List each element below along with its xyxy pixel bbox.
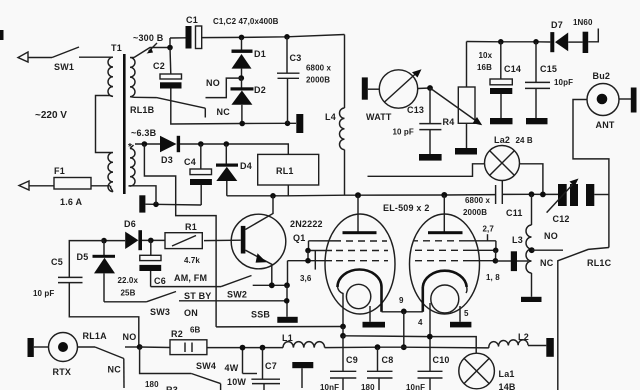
svg-text:180: 180 bbox=[145, 380, 159, 389]
capacitor C2 bbox=[169, 48, 172, 75]
svg-text:D6: D6 bbox=[124, 219, 136, 229]
wire heater feed down bbox=[144, 144, 216, 327]
inductor L1 bbox=[283, 342, 325, 348]
node chassis bbox=[153, 202, 159, 208]
wire bbox=[28, 57, 52, 59]
tube V2 grid g3 bbox=[415, 260, 495, 262]
svg-text:10 pF: 10 pF bbox=[393, 128, 414, 137]
svg-text:C5: C5 bbox=[51, 257, 63, 267]
wire La2 right bbox=[520, 164, 543, 195]
svg-text:NC: NC bbox=[217, 107, 231, 117]
switch SW3 bbox=[104, 301, 146, 303]
svg-text:Bu2: Bu2 bbox=[593, 71, 611, 81]
tube V2 grid g2 bbox=[415, 249, 496, 251]
svg-text:10nF: 10nF bbox=[320, 383, 339, 390]
diode D2 bbox=[241, 78, 243, 87]
transistor Q1 circle bbox=[231, 214, 286, 269]
wire bracket down bbox=[403, 311, 405, 347]
switch SW1 bbox=[52, 47, 79, 58]
capacitor C6 bbox=[150, 240, 152, 255]
svg-text:10W: 10W bbox=[227, 377, 246, 387]
svg-text:D3: D3 bbox=[161, 155, 173, 165]
svg-text:L4: L4 bbox=[325, 112, 336, 122]
tube V1 grid g3 bbox=[288, 260, 389, 262]
svg-text:25B: 25B bbox=[121, 289, 136, 298]
ground C15 bbox=[526, 118, 548, 124]
wire cathode bracket bbox=[382, 311, 423, 313]
svg-text:C7: C7 bbox=[265, 361, 277, 371]
capacitor C10 bbox=[418, 370, 443, 372]
svg-text:C13: C13 bbox=[407, 105, 424, 115]
svg-text:6B: 6B bbox=[190, 326, 201, 335]
svg-text:SW4: SW4 bbox=[196, 361, 216, 371]
relay coil RL1 bbox=[258, 154, 319, 185]
wire L3 tap NO bbox=[532, 249, 563, 251]
svg-text:RL1C: RL1C bbox=[587, 258, 612, 268]
svg-text:L1: L1 bbox=[282, 333, 293, 343]
svg-text:AM, FM: AM, FM bbox=[174, 273, 207, 283]
svg-text:R1: R1 bbox=[185, 222, 197, 232]
mains connector arrow upper bbox=[18, 52, 28, 62]
svg-text:R3: R3 bbox=[166, 385, 178, 390]
wire 300V top to rail bbox=[134, 38, 170, 58]
wire bus right segment bbox=[502, 193, 558, 195]
svg-text:1.6 A: 1.6 A bbox=[60, 197, 82, 207]
wire V1 grid tie bbox=[308, 241, 310, 251]
svg-text:10nF: 10nF bbox=[406, 383, 425, 390]
wire V2 grid tie bbox=[495, 241, 497, 251]
tube V1 envelope bbox=[325, 214, 395, 314]
ground meter cap bbox=[419, 154, 442, 161]
transformer T1 core bbox=[123, 54, 126, 194]
svg-text:10x: 10x bbox=[479, 51, 493, 60]
tube V2 grid g1 bbox=[413, 240, 496, 242]
node D5 top bbox=[101, 238, 107, 244]
svg-text:C6: C6 bbox=[154, 276, 166, 286]
node Q1 collector top bbox=[270, 193, 276, 199]
svg-text:NC: NC bbox=[540, 258, 554, 268]
wire D3 to RL1 bbox=[180, 144, 288, 154]
wire NO contact bbox=[125, 346, 139, 348]
wire g3 to ground column bbox=[287, 261, 289, 286]
feedthrough bar Bu2 bbox=[631, 88, 637, 113]
svg-text:R2: R2 bbox=[171, 329, 183, 339]
svg-text:5: 5 bbox=[464, 309, 469, 318]
Q1 base bar bbox=[241, 226, 246, 254]
svg-text:RL1: RL1 bbox=[276, 166, 294, 176]
connector Bu2 bbox=[587, 84, 619, 116]
diode D6 bbox=[142, 239, 165, 241]
svg-text:SW3: SW3 bbox=[150, 307, 170, 317]
node C15 bbox=[533, 39, 539, 45]
wire 6.3 winding bottom bbox=[129, 186, 157, 205]
diode D3 bbox=[160, 136, 177, 152]
wire NC down bbox=[123, 359, 125, 389]
svg-text:14B: 14B bbox=[499, 382, 516, 390]
wire C2 bottom down bbox=[171, 89, 296, 125]
ground R4 bbox=[455, 148, 477, 155]
chassis bar right of NC wire bbox=[296, 114, 303, 133]
diode D4 bbox=[225, 144, 227, 164]
connector RTX bar bbox=[28, 338, 34, 357]
node tube2 anode bbox=[441, 192, 447, 198]
pin stub V1 bbox=[314, 251, 316, 270]
wire cathode column bbox=[342, 327, 344, 336]
node junction C2 tap bbox=[167, 45, 173, 51]
wire g-tie to bar bbox=[495, 260, 511, 262]
ground bar SSB bbox=[277, 317, 297, 323]
capacitor 10pF meter bbox=[429, 88, 431, 123]
feedthrough bar near C7 bbox=[292, 362, 313, 368]
top right rail bbox=[467, 41, 551, 44]
capacitor C1 bbox=[186, 26, 192, 49]
resistor R2 bbox=[140, 346, 170, 349]
wire La2 left bbox=[368, 164, 485, 177]
svg-text:C1: C1 bbox=[186, 15, 198, 25]
diode D7 bbox=[550, 32, 554, 52]
svg-text:RTX: RTX bbox=[53, 367, 72, 377]
mains connector arrow lower bbox=[19, 181, 29, 190]
pin lead V2 bottom bbox=[429, 303, 431, 371]
node cathode bias bbox=[340, 324, 346, 330]
feedthrough bar L2 bbox=[546, 338, 554, 357]
feedthrough bar D7 bbox=[583, 32, 589, 53]
svg-text:10pF: 10pF bbox=[554, 78, 573, 87]
node NO bbox=[137, 344, 143, 350]
svg-text:9: 9 bbox=[399, 296, 404, 305]
ground V2 bbox=[450, 322, 471, 328]
node D1-D2 bbox=[238, 75, 244, 81]
capacitor C11 series bbox=[495, 185, 497, 204]
svg-text:2N2222: 2N2222 bbox=[290, 219, 323, 229]
svg-text:T1: T1 bbox=[111, 43, 122, 53]
capacitor C4 bbox=[200, 144, 202, 169]
ground C14 bbox=[490, 118, 513, 124]
node D4 top bbox=[224, 141, 230, 147]
T1 secondary 6.3V winding bbox=[129, 145, 136, 186]
meter bar bbox=[362, 77, 368, 99]
Q1 collector bbox=[245, 196, 273, 230]
pin stub V2 bbox=[487, 234, 489, 241]
svg-text:22.0x: 22.0x bbox=[118, 276, 139, 285]
wire bbox=[34, 346, 49, 348]
tube V1 grid g2 bbox=[308, 250, 388, 252]
ground L3 bbox=[521, 297, 542, 302]
svg-text:2000B: 2000B bbox=[463, 208, 487, 217]
inductor L4 bbox=[344, 35, 346, 109]
wire down to SW4 bbox=[140, 347, 192, 374]
capacitor C9 bbox=[342, 336, 344, 371]
svg-text:L3: L3 bbox=[512, 235, 523, 245]
svg-text:C9: C9 bbox=[346, 355, 358, 365]
svg-text:C15: C15 bbox=[540, 64, 557, 74]
node C3 top bbox=[284, 34, 290, 40]
svg-text:4W: 4W bbox=[225, 363, 239, 373]
stub bbox=[588, 29, 598, 42]
svg-text:16B: 16B bbox=[477, 63, 492, 72]
tube V1 heater bbox=[346, 284, 370, 308]
tube V1 cathode arc bbox=[338, 270, 382, 288]
svg-text:SW2: SW2 bbox=[227, 290, 247, 300]
T1 secondary 300V winding bbox=[130, 58, 135, 98]
tube V1 anode bbox=[357, 195, 359, 231]
svg-text:10 pF: 10 pF bbox=[33, 289, 54, 298]
svg-text:Q1: Q1 bbox=[293, 233, 305, 243]
meter C13 WATT bbox=[379, 70, 417, 108]
capacitor C3 bbox=[286, 37, 288, 73]
svg-text:180: 180 bbox=[361, 383, 375, 390]
svg-text:WATT: WATT bbox=[366, 112, 392, 122]
node tube1 anode bbox=[355, 192, 361, 198]
relay contact RL1C bbox=[558, 248, 609, 264]
svg-text:C1,C2 47,0x400B: C1,C2 47,0x400B bbox=[213, 17, 279, 26]
node D2 bottom bbox=[239, 121, 245, 127]
svg-text:1N60: 1N60 bbox=[573, 18, 593, 27]
node SW corner bbox=[284, 282, 290, 288]
wire 6.3 top bbox=[135, 143, 160, 145]
wire R2 to L1 bbox=[207, 347, 283, 349]
wire NC rail bbox=[557, 263, 559, 390]
wire bbox=[29, 185, 54, 187]
svg-text:D5: D5 bbox=[77, 252, 89, 262]
wire bar to L3 bbox=[517, 260, 528, 262]
capacitor C8 bbox=[377, 347, 379, 371]
svg-text:2,7: 2,7 bbox=[483, 225, 495, 234]
node L3 tap bbox=[529, 247, 535, 253]
T1 primary lower winding bbox=[108, 153, 113, 192]
svg-text:ON: ON bbox=[184, 308, 198, 318]
svg-text:3,6: 3,6 bbox=[300, 274, 312, 283]
wire L2 to bar bbox=[528, 345, 546, 347]
svg-text:C12: C12 bbox=[553, 214, 570, 224]
relay contact RL1B bbox=[134, 96, 157, 98]
node C14 bbox=[498, 39, 504, 45]
svg-text:D4: D4 bbox=[240, 161, 252, 171]
feedthrough bar grids bbox=[511, 251, 517, 271]
wire RL1 bottom stem bbox=[287, 185, 289, 196]
svg-text:C4: C4 bbox=[184, 157, 196, 167]
svg-text:C11: C11 bbox=[506, 208, 523, 218]
svg-text:D2: D2 bbox=[254, 85, 266, 95]
svg-text:C14: C14 bbox=[504, 64, 521, 74]
svg-text:ST BY: ST BY bbox=[184, 291, 212, 301]
svg-text:La1: La1 bbox=[499, 369, 515, 379]
node C7 top bbox=[260, 345, 266, 351]
inductor L3 bbox=[531, 194, 533, 225]
wire V2 heater stem bbox=[459, 306, 461, 322]
svg-text:6800 x: 6800 x bbox=[465, 196, 491, 205]
wire L1 to caps bbox=[325, 346, 489, 349]
node C6 top bbox=[148, 238, 154, 244]
edge mark bbox=[0, 30, 4, 40]
wire rail top bbox=[170, 37, 186, 39]
wire bar to meter bbox=[368, 88, 380, 90]
wire V1 heater stem bbox=[369, 306, 371, 322]
wire meter to node bbox=[418, 87, 430, 90]
svg-text:~6.3B: ~6.3B bbox=[131, 128, 157, 138]
lamp La1 bbox=[459, 353, 495, 389]
relay contact RL1A bbox=[78, 346, 96, 348]
svg-text:NO: NO bbox=[544, 231, 558, 241]
svg-text:4: 4 bbox=[418, 318, 423, 327]
tube V2 envelope bbox=[410, 214, 480, 314]
capacitor C15 bbox=[535, 42, 537, 82]
capacitor C7 bbox=[262, 348, 264, 379]
node C4 top bbox=[198, 141, 204, 147]
potentiometer R4 bbox=[466, 42, 468, 88]
switch SW4 bbox=[191, 374, 220, 384]
node C10 top bbox=[427, 334, 433, 340]
diode D5 bbox=[103, 241, 105, 255]
svg-text:La2: La2 bbox=[494, 135, 510, 145]
Q1 emitter bbox=[245, 250, 271, 285]
svg-text:4.7k: 4.7k bbox=[184, 256, 200, 265]
chassis bar 6.3 return bbox=[139, 195, 145, 212]
node C3 bottom bbox=[285, 121, 291, 127]
svg-text:C3: C3 bbox=[290, 53, 302, 63]
svg-text:D1: D1 bbox=[254, 49, 266, 59]
svg-text:NO: NO bbox=[206, 78, 220, 88]
node C13 bbox=[427, 85, 433, 91]
node La2 right bbox=[540, 192, 546, 198]
svg-text:SSB: SSB bbox=[251, 310, 270, 320]
svg-text:EL-509 x 2: EL-509 x 2 bbox=[383, 203, 430, 213]
svg-text:1, 8: 1, 8 bbox=[486, 273, 500, 282]
variable capacitor C12 bbox=[558, 184, 567, 206]
node C8 top bbox=[375, 344, 381, 350]
connector RTX circle bbox=[49, 333, 78, 362]
svg-text:C10: C10 bbox=[433, 355, 450, 365]
svg-text:R4: R4 bbox=[443, 117, 455, 127]
svg-text:L2: L2 bbox=[518, 332, 529, 342]
tube V2 anode bbox=[443, 195, 445, 232]
wire RL1B NO contact bbox=[206, 78, 242, 98]
svg-text:F1: F1 bbox=[54, 166, 65, 176]
svg-text:C8: C8 bbox=[382, 355, 394, 365]
fuse F1 bbox=[54, 178, 91, 190]
node D1 top bbox=[239, 35, 245, 41]
wire primary link bbox=[96, 96, 111, 153]
inductor L2 bbox=[489, 340, 528, 348]
svg-text:~220 V: ~220 V bbox=[35, 110, 67, 121]
tube V1 grid g1 bbox=[309, 240, 388, 242]
bias line bbox=[216, 326, 343, 328]
svg-text:RL1B: RL1B bbox=[130, 105, 155, 115]
capacitor C5 bbox=[69, 241, 104, 277]
svg-text:C2: C2 bbox=[153, 61, 165, 71]
wire rail C1 to L4 corner bbox=[202, 35, 345, 38]
wire chassis to C4 bottom bbox=[145, 203, 201, 206]
node 6.3 top bbox=[142, 141, 148, 147]
wire to ground bar bbox=[286, 285, 288, 317]
capacitor C14 bbox=[500, 42, 502, 79]
ground V1 bbox=[363, 322, 386, 328]
switch SW2 bbox=[151, 286, 222, 288]
diode D1 bbox=[241, 37, 243, 49]
svg-text:*: * bbox=[128, 142, 132, 153]
lamp La2 bbox=[485, 146, 520, 181]
T1 primary upper winding bbox=[108, 57, 113, 96]
svg-text:NO: NO bbox=[123, 332, 137, 342]
line to La1 bbox=[343, 336, 476, 353]
resistor R1 bbox=[204, 239, 241, 241]
wire F1 to winding bbox=[91, 185, 110, 187]
svg-text:SW1: SW1 bbox=[54, 62, 74, 72]
svg-text:ANT: ANT bbox=[596, 120, 615, 130]
svg-text:6800 x: 6800 x bbox=[306, 64, 332, 73]
tube V2 cathode arc bbox=[423, 271, 467, 287]
svg-text:~300 B: ~300 B bbox=[133, 33, 164, 43]
svg-text:RL1A: RL1A bbox=[83, 331, 108, 341]
wire Bu2 right bbox=[619, 98, 631, 100]
svg-text:D7: D7 bbox=[551, 20, 563, 30]
node L3 top bbox=[529, 191, 535, 197]
wire Bu2 left down bbox=[573, 100, 609, 248]
svg-text:NC: NC bbox=[108, 365, 122, 375]
svg-text:2000B: 2000B bbox=[306, 76, 330, 85]
tube V2 heater bbox=[431, 285, 459, 313]
svg-text:24 B: 24 B bbox=[516, 136, 533, 145]
node emitter bbox=[269, 282, 275, 288]
main anode bus bbox=[227, 195, 496, 196]
node SW4 top bbox=[240, 345, 246, 351]
